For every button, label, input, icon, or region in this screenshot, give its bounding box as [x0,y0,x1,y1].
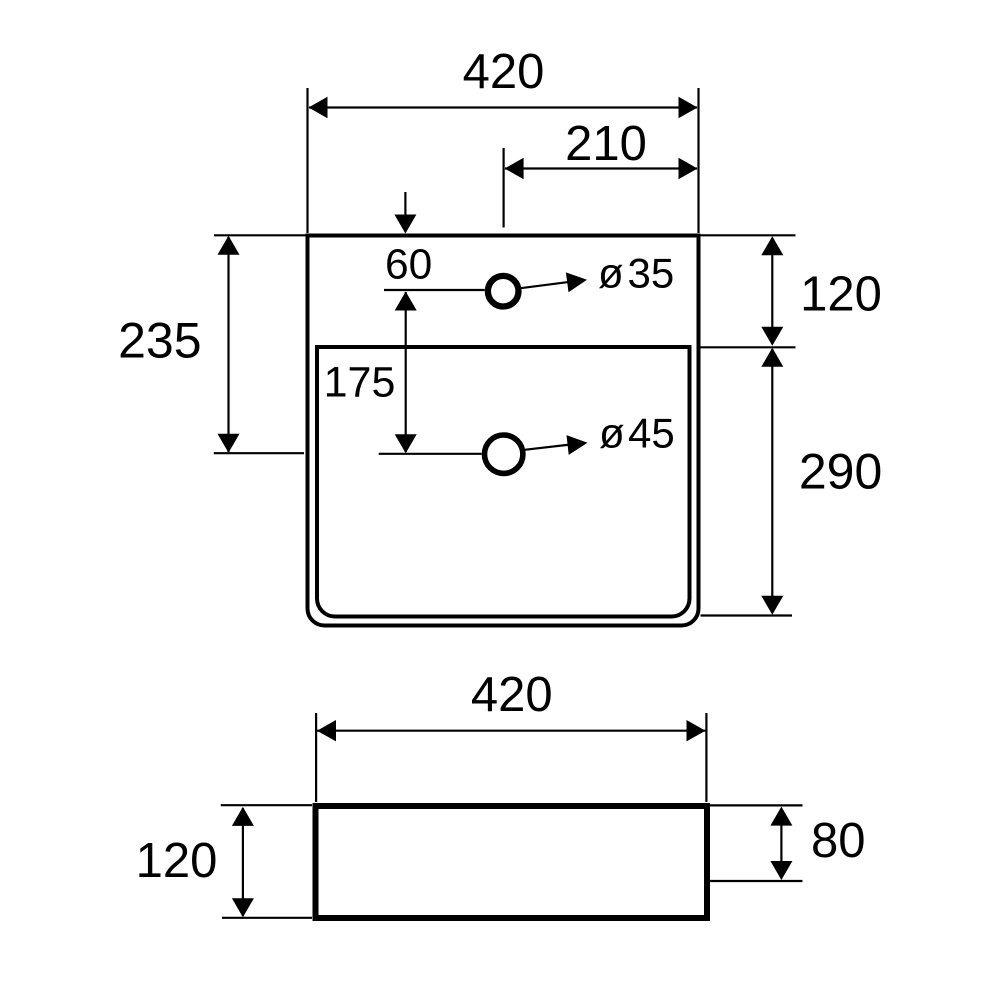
dimension 60 (tap hole from top edge) [384,192,485,290]
svg-text:210: 210 [565,117,647,171]
side view body rectangle [316,806,708,918]
leader arrow and label ø35 [520,250,675,297]
outer basin outline (front view) [308,236,699,626]
svg-text:120: 120 [136,834,218,888]
leader arrow and label ø45 [525,410,675,457]
svg-text:420: 420 [463,45,545,99]
drain hole circle ø45 [485,435,523,473]
dimension 175 (tap hole to drain hole) [324,292,482,454]
svg-text:35: 35 [628,250,675,297]
dimension 120 (top face height, right side) [701,235,882,347]
svg-text:290: 290 [799,444,882,500]
dimension 235 (left height, front view) [118,235,306,453]
dimension 210 (tap hole offset, front view) [504,117,698,228]
dimension 290 (basin depth, right side) [701,348,883,616]
dimension 420 (side view width) [316,668,706,802]
tap hole circle ø35 [488,276,519,307]
svg-text:60: 60 [385,241,432,288]
dimension 420 (top width, front view) [308,45,699,233]
svg-text:420: 420 [471,668,553,722]
dimension 120 (side view total height) [136,805,312,918]
dimension 80 (side view front apron height) [708,805,866,881]
svg-text:80: 80 [811,814,866,868]
svg-text:235: 235 [118,313,201,369]
svg-text:ø: ø [598,250,624,297]
svg-text:175: 175 [324,359,396,407]
inner basin rim outline [317,347,690,617]
svg-text:45: 45 [628,410,675,457]
svg-text:ø: ø [599,410,625,457]
svg-text:120: 120 [800,268,882,322]
